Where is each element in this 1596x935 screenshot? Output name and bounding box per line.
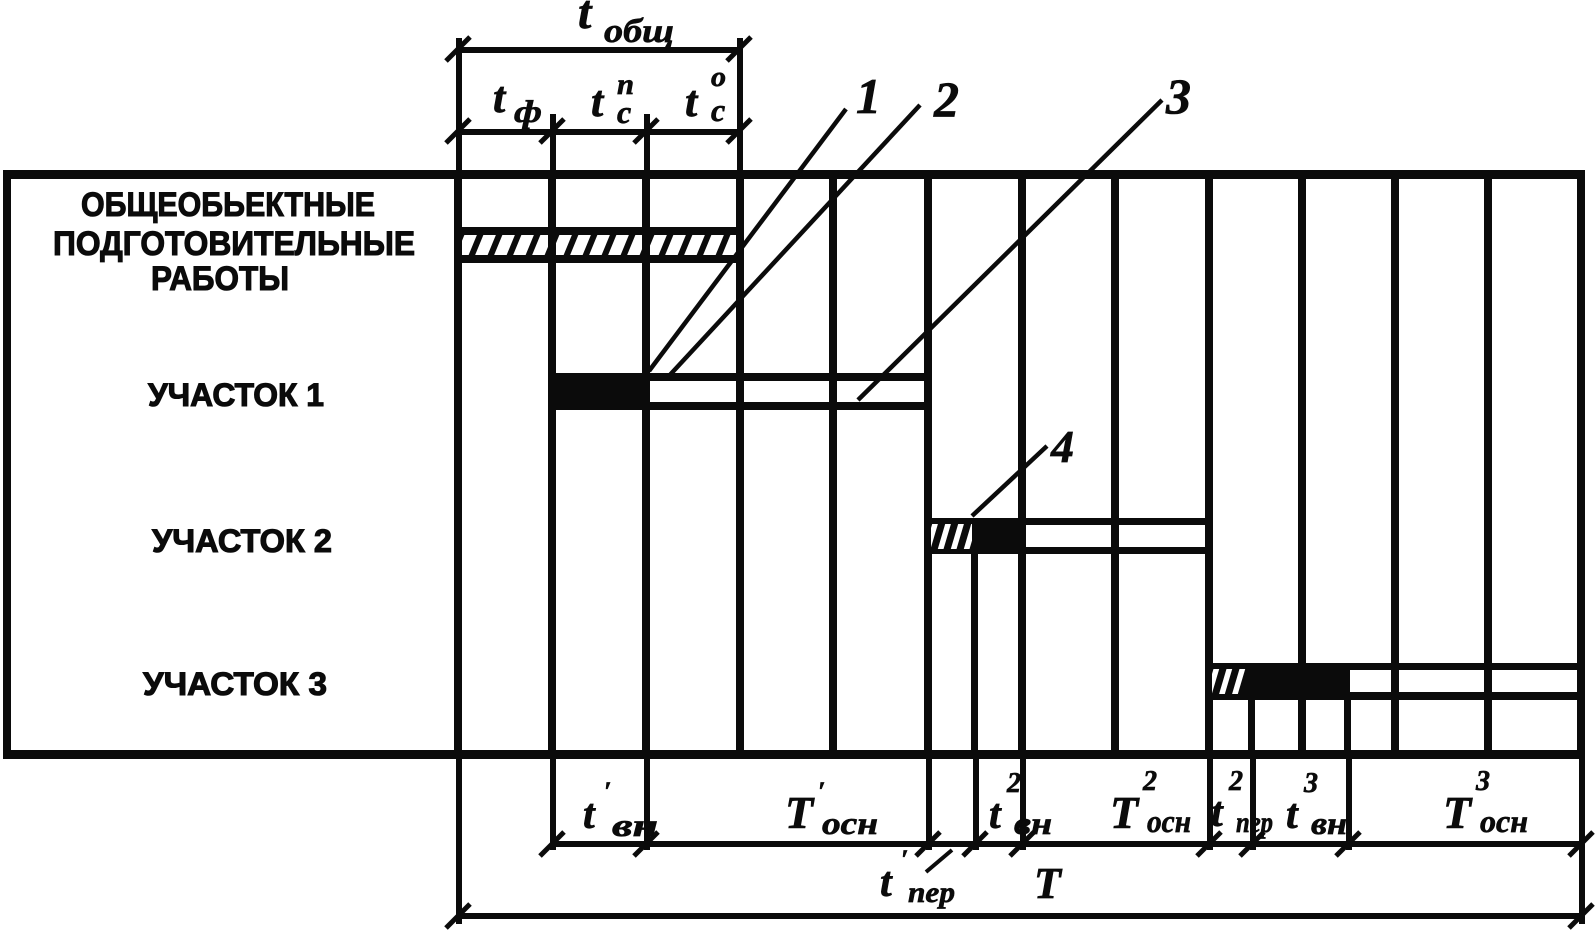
extension line below x=928	[926, 758, 932, 850]
extension line above x=458	[456, 38, 462, 171]
svg-text:УЧАСТОК 3: УЧАСТОК 3	[143, 666, 327, 702]
column line c1 x=552	[548, 170, 556, 759]
svg-text:ПОДГОТОВИТЕЛЬНЫЕ: ПОДГОТОВИТЕЛЬНЫЕ	[53, 225, 415, 263]
arrow T left	[446, 904, 470, 928]
dimension line t_obsh y=49	[458, 47, 740, 53]
dimension line bottom y=844	[552, 841, 1582, 847]
extension line above x=739	[737, 38, 743, 171]
svg-text:t: t	[1286, 792, 1299, 838]
column line c5 x=928	[924, 170, 932, 759]
prep works hatched bar top border	[455, 227, 742, 235]
label t2per bottom	[1211, 766, 1273, 839]
leader line 4	[972, 446, 1047, 516]
frame top edge	[3, 170, 1584, 179]
svg-text:t: t	[493, 73, 507, 122]
extension line below x=1348	[1346, 758, 1352, 850]
svg-text:T: T	[785, 787, 815, 838]
section2 outline bar bottom line	[1022, 547, 1209, 554]
prep works hatch strokes	[450, 228, 749, 262]
arrow d3 x1581	[1569, 832, 1593, 856]
section2 outline bar top line	[1022, 518, 1209, 525]
extension line below x=458 long	[456, 758, 462, 924]
arrow d3 x1252	[1240, 832, 1264, 856]
arrow d2 x646	[634, 119, 658, 143]
label t1vn bottom	[583, 777, 658, 843]
svg-text:вн: вн	[612, 807, 658, 843]
column line c12 x=1581	[1577, 170, 1585, 759]
label T1osn bottom	[785, 777, 878, 841]
svg-text:вн: вн	[1014, 805, 1052, 841]
extension line below x=1209	[1207, 758, 1213, 850]
column line c2 x=646	[642, 170, 650, 759]
svg-text:2: 2	[1006, 768, 1021, 799]
section2 black bar	[975, 518, 1022, 554]
svg-text:о: о	[711, 62, 726, 93]
svg-text:t: t	[1211, 790, 1224, 836]
section2 hatch piece	[925, 514, 977, 558]
extension line below x=1581 long	[1579, 758, 1585, 924]
svg-text:осн: осн	[822, 805, 878, 841]
dimension line t_f/t_s y=131	[458, 129, 740, 135]
dimension line T y=916	[458, 913, 1582, 919]
short vertical x=1252 below section3 bar	[1248, 697, 1255, 758]
svg-text:ф: ф	[514, 93, 542, 129]
svg-text:t: t	[578, 0, 593, 39]
short vertical x=975 below section2 bar	[971, 551, 978, 758]
extension line above x=552	[550, 114, 556, 171]
svg-text:′: ′	[818, 777, 825, 806]
section1 outline bar bottom line	[649, 402, 932, 410]
section3 outline bar bottom line	[1350, 692, 1581, 700]
arrow T right	[1569, 904, 1593, 928]
svg-text:t: t	[583, 792, 596, 838]
label t_f	[493, 73, 542, 129]
svg-text:УЧАСТОК 2: УЧАСТОК 2	[152, 523, 332, 559]
svg-text:пер: пер	[1236, 806, 1273, 839]
svg-text:2: 2	[933, 71, 959, 127]
arrow d2 x739	[727, 119, 751, 143]
label t_s_o	[685, 62, 726, 128]
arrow t_obsh left	[446, 37, 470, 61]
arrow d3 x1022	[1010, 832, 1034, 856]
column line c9 x=1302	[1298, 170, 1306, 759]
column line c4 x=833	[829, 170, 837, 759]
column line c7 x=1115	[1111, 170, 1119, 759]
svg-text:ОБЩЕОБЬЕКТНЫЕ: ОБЩЕОБЬЕКТНЫЕ	[81, 186, 375, 224]
section1 outline bar top line	[649, 373, 932, 381]
arrow d3 x1348	[1336, 832, 1360, 856]
column line c8 x=1209	[1205, 170, 1213, 759]
svg-text:осн: осн	[1147, 803, 1191, 839]
label t3vn bottom	[1286, 768, 1347, 841]
column line c3 x=740	[736, 170, 744, 759]
column line c6 x=1022	[1018, 170, 1026, 759]
section3 outline bar top line	[1350, 663, 1581, 670]
section3 hatch piece	[1206, 660, 1252, 704]
dimension arrow slashes	[446, 37, 1593, 928]
svg-text:1: 1	[856, 68, 881, 124]
arrow d3 x552	[540, 832, 564, 856]
svg-text:с: с	[711, 92, 725, 128]
svg-text:с: с	[617, 94, 631, 130]
svg-text:t: t	[880, 860, 893, 906]
section3 black bar	[1252, 663, 1350, 700]
svg-text:T: T	[1110, 787, 1140, 838]
extension line below x=1022	[1020, 758, 1026, 850]
svg-text:РАБОТЫ: РАБОТЫ	[151, 260, 289, 298]
svg-text:2: 2	[1142, 766, 1157, 797]
short vertical x=1348 below section3 bar	[1344, 697, 1351, 758]
section1 black bar	[552, 373, 649, 410]
label T3osn bottom	[1443, 766, 1528, 839]
svg-text:4: 4	[1050, 421, 1074, 472]
label t_s_p	[591, 68, 634, 130]
extension line below x=646	[644, 758, 650, 850]
label t_obsh	[578, 0, 674, 50]
svg-text:пер: пер	[908, 876, 955, 909]
svg-text:осн: осн	[1480, 803, 1528, 839]
svg-text:общ: общ	[604, 13, 674, 50]
arrow d3 x928	[916, 832, 940, 856]
arrow t_obsh right	[727, 37, 751, 61]
prep works hatched bar bottom border	[455, 255, 742, 263]
svg-text:t: t	[591, 77, 605, 126]
svg-text:′: ′	[901, 845, 908, 874]
extension line below x=1252	[1250, 758, 1256, 850]
arrow d3 x646	[634, 832, 658, 856]
leader slash t1per	[926, 850, 952, 872]
arrow d3 x1209	[1197, 832, 1221, 856]
column line c11 x=1488	[1484, 170, 1492, 759]
svg-text:2: 2	[1228, 766, 1243, 797]
column line c10 x=1395	[1391, 170, 1399, 759]
svg-text:3: 3	[1165, 68, 1191, 124]
svg-text:T: T	[1443, 787, 1473, 838]
svg-text:вн: вн	[1311, 805, 1347, 841]
svg-text:3: 3	[1303, 768, 1318, 799]
svg-text:t: t	[685, 77, 699, 126]
column line c0 x=458	[454, 170, 462, 759]
label t1per bottom	[880, 845, 955, 909]
label T2osn bottom	[1110, 766, 1191, 839]
leader line 3	[858, 100, 1162, 400]
frame left edge	[3, 170, 11, 759]
arrow d2 x458	[446, 119, 470, 143]
arrow d2 x552	[540, 119, 564, 143]
svg-text:′: ′	[604, 777, 611, 806]
frame bottom edge	[3, 750, 1584, 759]
extension line above x=646	[644, 114, 650, 171]
arrow d3 x975	[963, 832, 987, 856]
leader line 1	[649, 109, 846, 371]
leader line 2	[668, 105, 920, 377]
label t2vn bottom	[989, 768, 1052, 841]
extension line below x=975	[973, 758, 979, 850]
svg-text:t: t	[989, 792, 1002, 838]
svg-text:T: T	[1034, 859, 1063, 908]
extension line below x=552	[550, 758, 556, 850]
svg-text:3: 3	[1475, 766, 1490, 797]
svg-text:УЧАСТОК 1: УЧАСТОК 1	[148, 377, 324, 413]
